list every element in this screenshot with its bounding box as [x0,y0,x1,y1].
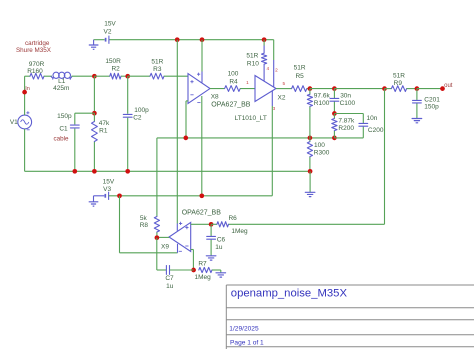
svg-text:47k: 47k [99,120,110,127]
junction X9+/C6/R6 [209,222,214,227]
wire V1 top to R160 [25,76,31,115]
svg-text:1/29/2025: 1/29/2025 [229,325,259,332]
svg-text:out: out [444,83,453,89]
resistor R9 [391,86,406,92]
wire X2 output [276,88,292,90]
svg-text:1Meg: 1Meg [194,274,211,281]
svg-text:R9: R9 [394,80,403,87]
op-amp X8 [188,73,210,104]
svg-text:100: 100 [228,71,239,78]
svg-text:OPA627_BB: OPA627_BB [211,102,251,109]
svg-text:R3: R3 [153,66,162,73]
junction rail R300 ground [308,169,313,174]
pin X8 V+ stub [201,72,203,83]
capacitor C2 [123,113,132,115]
capacitor C201 [413,99,422,101]
ground R7 [216,273,226,277]
svg-text:L1: L1 [58,78,66,85]
svg-text:15V: 15V [104,21,116,28]
svg-text:1Meg: 1Meg [231,228,248,235]
svg-text:51R: 51R [294,65,306,72]
junction X9 out/R8/C7 [155,235,160,240]
svg-text:C100: C100 [340,100,356,107]
pin X2 V+ stub [273,60,275,87]
wire V3 drop to X9 V- [120,196,178,253]
junction X9-/C7/R7 [191,268,196,273]
svg-text:OPA627_BB: OPA627_BB [182,210,222,217]
ground C6 [206,256,216,260]
wire R3 to X8 +input [164,75,188,77]
junction C100/R200/C200 [332,111,337,116]
wire node down to C1 row [93,76,95,113]
junction feedback/X8 -input [183,136,188,141]
wire V1 bottom [24,129,26,171]
wire X9 -input drop [191,250,194,271]
capacitor C100 wires [333,89,335,114]
svg-text:425m: 425m [53,85,69,92]
pin X2 3 V- stub [271,91,273,107]
battery V3 [94,192,109,200]
resistor R3 [150,73,164,79]
wire X8 V+ drop [201,40,203,72]
wire R9 to C201 [407,88,417,90]
svg-text:1u: 1u [166,283,174,290]
svg-text:100p: 100p [134,107,149,114]
junction C201 [415,86,420,91]
battery V2 [106,36,109,44]
svg-text:R8: R8 [140,222,149,229]
pin X9 V+ stub [176,224,178,231]
voltage source V1 [18,111,32,130]
svg-text:V2: V2 [104,29,112,36]
op-amp X9 [169,222,191,252]
wire to out node [417,88,443,90]
svg-text:5k: 5k [140,215,148,222]
svg-text:R300: R300 [314,150,330,157]
buffer X2 [255,76,276,102]
ground V3 [89,196,99,206]
junction R2/C2/R3 node [125,74,130,79]
capacitor C6 wires [210,224,212,255]
wire output to R9 corner [334,88,384,90]
junction rail R1 [92,169,97,174]
svg-text:97.6k: 97.6k [314,93,331,100]
svg-text:openamp_noise_M35X: openamp_noise_M35X [231,288,348,300]
svg-text:1: 1 [246,80,249,85]
svg-text:970R: 970R [29,61,45,68]
wire C2 bottom [127,118,129,172]
wire ground rail [25,170,311,172]
wire C1 top [75,113,95,124]
svg-text:R5: R5 [295,73,304,80]
wire R2 to C2 node [121,75,128,77]
svg-text:4: 4 [266,66,269,71]
svg-text:C2: C2 [133,115,142,122]
svg-text:3: 3 [273,106,276,111]
resistor R10 [263,40,265,81]
resistor R6 [211,223,384,225]
junction output/R6 riser [382,86,387,91]
svg-text:51R: 51R [246,53,258,60]
resistor R7 [199,267,212,272]
svg-text:X8: X8 [211,94,219,101]
svg-text:Shure M35X: Shure M35X [16,47,52,54]
wire L1 to node [72,75,95,77]
svg-text:R200: R200 [338,125,354,132]
svg-text:R1: R1 [99,128,108,135]
junction V3 node [117,193,122,198]
svg-text:V1: V1 [10,119,18,126]
svg-text:10n: 10n [367,115,378,122]
svg-text:X9: X9 [161,243,169,250]
svg-text:In: In [25,86,30,92]
junction C1 row [92,111,97,116]
node In junction [22,90,27,95]
svg-text:150R: 150R [105,58,121,65]
svg-text:150p: 150p [424,104,439,111]
capacitor C1 [70,124,79,126]
wire feedback row [157,137,335,139]
svg-text:Page 1 of 1: Page 1 of 1 [230,339,264,346]
node out junction [440,86,445,91]
wire C200 branch [334,114,363,138]
title block frame [226,285,474,349]
wire R9 left lead [385,88,392,90]
resistor R8 [156,138,158,238]
resistor R4 [225,86,241,92]
svg-text:2: 2 [275,67,278,72]
svg-text:C6: C6 [217,236,226,243]
svg-text:R100: R100 [314,100,330,107]
resistor R300 [309,138,311,171]
wire X8 V- drop [201,96,203,196]
junction +15 rail / X8 V+ [200,37,205,42]
svg-text:R7: R7 [198,260,207,267]
wire R6 riser to output [384,89,386,225]
wire node to R2 [94,75,109,77]
svg-text:1u: 1u [215,244,223,251]
svg-text:R6: R6 [228,215,237,222]
resistor R2 [110,73,121,79]
pin X9 V- stub [177,244,179,253]
junction +15 rail / X9 V+ [175,37,180,42]
svg-text:R10: R10 [247,61,259,68]
junction feedback/R200/C200 [332,136,337,141]
svg-text:cartridge: cartridge [25,40,50,47]
wire node to R3 [128,75,150,77]
svg-text:15V: 15V [103,178,115,185]
svg-text:7.87k: 7.87k [338,118,355,125]
ground V2 [89,40,99,50]
svg-text:30n: 30n [340,93,351,100]
wire X8 output to R4 [210,88,225,90]
wire output node to C100 [310,88,335,90]
wire top +15V rail [94,40,274,60]
resistor R100 [309,89,311,138]
wire C7 row [157,238,194,270]
junction +15 rail / R10 [262,37,267,42]
svg-text:150p: 150p [57,113,72,120]
wire X9 +input [191,223,211,225]
svg-text:C200: C200 [368,127,384,134]
wire X9 output [157,236,169,238]
wire X8 -input feedback [186,101,188,138]
svg-text:51R: 51R [393,73,405,80]
junction rail C1 [72,169,77,174]
svg-text:C7: C7 [165,275,174,282]
svg-text:V3: V3 [103,186,111,193]
wire R4 to X2 [240,88,255,90]
svg-text:C1: C1 [59,126,68,133]
capacitor C7 [165,266,167,275]
wire C1 bottom [74,129,76,172]
svg-text:cable: cable [53,136,69,143]
wire X2 V- down [271,106,273,196]
wire R7 to ground [212,270,221,273]
svg-text:C201: C201 [424,97,440,104]
svg-text:5: 5 [282,81,285,86]
resistor R200 [333,114,335,138]
inductor L1 [51,72,72,78]
svg-text:R160: R160 [27,68,43,75]
svg-text:X2: X2 [278,95,286,102]
resistor R160 [30,73,44,79]
svg-text:100: 100 [314,142,325,149]
capacitor C201 wires [416,89,418,119]
junction input/C1R1 node [92,74,97,79]
capacitor C2 wire top [127,76,129,114]
junction V- X8 [199,193,204,198]
ground R300 [305,192,315,196]
wire R5 to node [307,88,310,90]
svg-text:LT1010_LT: LT1010_LT [235,115,267,122]
junction output/C100 [332,86,337,91]
svg-text:R2: R2 [111,65,120,72]
ground C201 [412,119,422,123]
resistor R5 [292,86,307,92]
wire R160 to L1 [44,75,52,77]
wire X9 V+ drop [176,40,178,224]
junction feedback/R100/R300 [308,136,313,141]
svg-text:R4: R4 [229,79,238,86]
capacitor C100 [330,97,339,99]
junction rail C2 [125,169,130,174]
capacitor C6 [207,235,216,237]
junction output/R100 [308,86,313,91]
wire V- row [109,195,273,197]
resistor R1 [93,113,95,171]
svg-text:51R: 51R [151,59,163,66]
capacitor C200 [359,122,368,124]
wire R300 ground stem [309,171,311,192]
